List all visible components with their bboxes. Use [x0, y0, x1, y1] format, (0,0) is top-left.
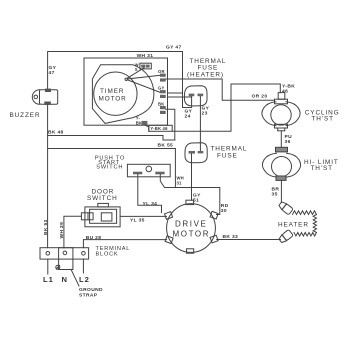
- label WH 31 small: [177, 176, 184, 186]
- label BR 35: [272, 187, 280, 198]
- svg-text:BK 48: BK 48: [48, 129, 64, 135]
- heater cone top: [278, 201, 293, 215]
- label PUSH TO START SWITCH: [95, 155, 125, 170]
- label GY 23: [202, 106, 210, 117]
- label BK 55: [158, 142, 174, 148]
- svg-text:GY: GY: [158, 86, 164, 91]
- svg-text:HEATER: HEATER: [278, 222, 309, 229]
- wire YL35 door switch to motor: [120, 215, 166, 217]
- svg-text:47: 47: [49, 70, 55, 76]
- wire WH29: [64, 216, 82, 247]
- svg-text:DRIVE: DRIVE: [175, 220, 207, 229]
- door switch: [81, 203, 120, 226]
- svg-text:FUSE: FUSE: [217, 153, 238, 160]
- svg-text:L1: L1: [43, 275, 54, 284]
- svg-text:BLOCK: BLOCK: [96, 252, 119, 258]
- motor tab upper-left: [165, 212, 173, 220]
- label BK 53: [43, 219, 49, 235]
- label WH 29: [59, 222, 65, 239]
- hi-limit thermostat: [263, 147, 301, 180]
- label GY 51: [193, 193, 201, 204]
- terminal block: [40, 248, 89, 259]
- heater zigzag: [293, 211, 317, 236]
- timer hub: [125, 78, 127, 80]
- wire PU36: [280, 131, 282, 148]
- label HI- LIMIT TH'ST: [304, 159, 339, 172]
- svg-text:BK: BK: [158, 102, 164, 107]
- svg-text:WH 31: WH 31: [137, 53, 154, 59]
- drive motor: [167, 204, 216, 253]
- wire GY timer pad to thermal fuse: [168, 96, 192, 98]
- svg-text:TH'ST: TH'ST: [311, 165, 333, 172]
- label GY 47 top right: [166, 45, 182, 51]
- label DOOR SWITCH: [87, 189, 118, 203]
- wire WH31 switch to motor: [160, 174, 220, 214]
- svg-text:BK 55: BK 55: [158, 142, 174, 148]
- svg-text:BK 53: BK 53: [43, 219, 49, 235]
- label PU 36: [285, 134, 293, 145]
- label box Y-BK 46: [149, 125, 172, 131]
- buzzer: [32, 89, 57, 105]
- label WH 31 top: [137, 53, 154, 59]
- svg-text:STRAP: STRAP: [79, 293, 98, 299]
- wire BR35: [280, 180, 282, 202]
- svg-text:23: 23: [202, 111, 208, 117]
- svg-text:TH'ST: TH'ST: [312, 115, 334, 122]
- thermal fuse 2 body: [185, 143, 207, 163]
- svg-text:BU 28: BU 28: [86, 235, 102, 241]
- wire GY23 fuse to fuse2: [199, 97, 201, 152]
- motor tab top: [186, 200, 194, 204]
- wire YL34 switch to motor: [138, 174, 162, 212]
- timer terminal BK pads: [160, 106, 166, 109]
- timer contact arm to GY: [128, 80, 160, 92]
- svg-text:36: 36: [285, 139, 291, 145]
- motor tab lower-left: [165, 236, 173, 244]
- ground strap: [59, 248, 73, 270]
- svg-text:35: 35: [272, 192, 278, 198]
- wire GY24 stub from rail down to thermal fuse left pad: [183, 93, 192, 108]
- motor tab right-upper: [210, 211, 218, 219]
- svg-text:MOTOR: MOTOR: [99, 96, 127, 103]
- wire GY51 fuse2 to motor: [191, 154, 193, 200]
- label BU 28: [86, 235, 102, 241]
- label CYCLING TH'ST: [305, 109, 340, 122]
- label HEATER: [278, 222, 309, 229]
- label Y-BK 46 right: [282, 84, 295, 95]
- label BK 48: [48, 129, 64, 135]
- push to start switch box: [127, 164, 170, 177]
- label THERMAL FUSE (HEATER): [187, 58, 226, 79]
- timer terminal Y-BK pad: [142, 121, 148, 125]
- timer terminal OR pads: [160, 74, 166, 77]
- wire GY47 buzzer to timer top rail: [48, 52, 183, 94]
- label YL 35: [130, 218, 145, 224]
- svg-text:30: 30: [221, 208, 227, 214]
- heater cone bottom: [278, 229, 293, 243]
- cycling thermostat: [262, 93, 300, 131]
- label L1 N L2: [43, 275, 90, 284]
- svg-text:Y-BK 46: Y-BK 46: [150, 126, 168, 131]
- timer contact arm to OR: [128, 75, 160, 79]
- svg-text:FUSE: FUSE: [198, 65, 219, 72]
- label BUZZER: [10, 112, 41, 119]
- label OR 20: [252, 94, 268, 100]
- timer terminal W box: [140, 63, 151, 69]
- svg-text:SWITCH: SWITCH: [87, 195, 118, 202]
- wire BK33 motor to heater: [217, 239, 281, 241]
- wire BK48: [48, 136, 175, 141]
- timer cam: [92, 65, 153, 124]
- ground strap leader: [71, 269, 79, 286]
- svg-text:MOTOR: MOTOR: [173, 230, 211, 239]
- wire OR from timer to tstat: [166, 79, 275, 100]
- timer box: [84, 58, 168, 125]
- label DRIVE MOTOR: [173, 220, 211, 239]
- label GROUND STRAP: [79, 287, 103, 299]
- label BK 33: [223, 234, 239, 240]
- svg-text:(HEATER): (HEATER): [187, 72, 224, 79]
- svg-text:THERMAL: THERMAL: [211, 146, 248, 153]
- label TIMER MOTOR: [99, 88, 127, 103]
- label RD 30: [221, 203, 229, 214]
- svg-text:YL 34: YL 34: [143, 201, 158, 207]
- timer terminal GY pads: [160, 90, 166, 93]
- motor tab right-lower: [210, 235, 218, 243]
- label W S: [135, 63, 139, 72]
- label THERMAL FUSE 2: [211, 146, 248, 160]
- wire BU28 L2 to motor: [83, 240, 166, 248]
- svg-text:31: 31: [177, 181, 183, 186]
- svg-text:BUZZER: BUZZER: [10, 112, 41, 119]
- wire L1 stub: [47, 259, 49, 274]
- svg-text:N: N: [62, 275, 68, 284]
- wire L2 stub: [82, 259, 84, 273]
- svg-text:S: S: [135, 67, 138, 72]
- svg-text:BK: BK: [136, 120, 142, 125]
- label TERMINAL BLOCK: [96, 246, 131, 258]
- motor tab bottom: [187, 249, 194, 253]
- wire BK55: [48, 149, 176, 188]
- timer motor circle: [94, 72, 137, 115]
- svg-text:SWITCH: SWITCH: [96, 165, 123, 171]
- label GY47 buzzer: [49, 65, 57, 76]
- svg-text:OR: OR: [158, 69, 165, 74]
- label YL 34: [143, 201, 158, 207]
- wire Y-BK 46 from timer to tstat top: [145, 84, 281, 131]
- svg-text:BK 33: BK 33: [223, 234, 239, 240]
- label GY 24: [185, 109, 193, 120]
- svg-text:L2: L2: [79, 275, 90, 284]
- svg-text:WH 29: WH 29: [59, 222, 65, 239]
- svg-text:GROUND: GROUND: [79, 287, 103, 293]
- thermal fuse heater body: [185, 86, 208, 106]
- svg-text:GY 47: GY 47: [166, 45, 182, 51]
- svg-text:TIMER: TIMER: [100, 88, 124, 95]
- svg-text:24: 24: [185, 114, 191, 120]
- wire BK timer down: [166, 109, 175, 140]
- svg-text:YL 35: YL 35: [130, 218, 145, 224]
- svg-text:OR 20: OR 20: [252, 94, 268, 100]
- timer contact arm to W: [127, 68, 144, 78]
- wire BK53 buzzer/L1 vertical: [47, 105, 49, 248]
